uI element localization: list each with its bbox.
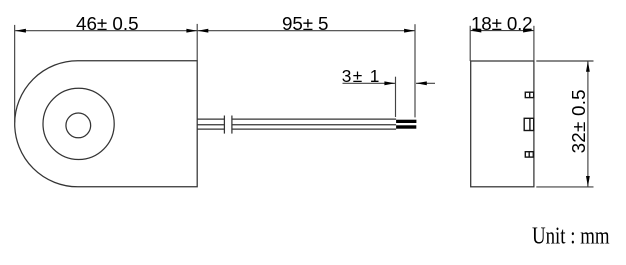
svg-text:18± 0.2: 18± 0.2	[471, 13, 532, 34]
svg-text:32± 0.5: 32± 0.5	[568, 89, 589, 153]
svg-text:46± 0.5: 46± 0.5	[76, 13, 139, 34]
svg-text:Unit : mm: Unit : mm	[532, 222, 610, 249]
svg-text:3± 1: 3± 1	[342, 66, 381, 86]
svg-text:95± 5: 95± 5	[282, 13, 328, 34]
